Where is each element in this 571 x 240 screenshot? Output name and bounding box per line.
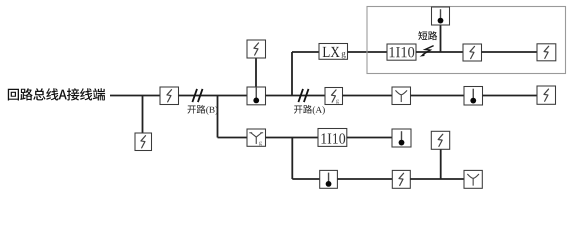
wire junction drop to row3 at node N1 xyxy=(217,96,219,138)
wire S6 to S7 xyxy=(482,51,538,53)
indicator lamp L5 (row4) xyxy=(320,170,338,188)
wire lamp stem L1 to fault box S3 above xyxy=(255,58,257,88)
code box 1I10 (row1) xyxy=(387,44,416,60)
short-circuit fault arrow xyxy=(423,46,434,55)
indicator lamp L4 (row3 end) xyxy=(392,129,411,147)
wire L2 to fault box S5 xyxy=(483,95,538,97)
fault indicator box S7 (lightning, row1 end) xyxy=(537,44,556,61)
indicator lamp L1 (on bus) xyxy=(247,87,266,105)
fault indicator box S3 (lightning, above lamp L1) xyxy=(247,40,266,58)
fault indicator box S6 (lightning, row1) xyxy=(463,44,482,61)
wire node N2 to relay LXg xyxy=(292,51,319,53)
antenna symbol box Y3 (row4 end) xyxy=(464,170,482,188)
wire S8 through node N4 to antenna Y3 xyxy=(410,178,464,180)
label 短路 xyxy=(418,31,437,40)
switch (open point A) double-slash xyxy=(298,89,303,102)
switch (open point B) double-slash xyxy=(192,89,197,102)
wire riser to row1 LX branch at node N2 xyxy=(291,52,293,96)
wire 1I10 row3 to lamp L4 xyxy=(347,137,392,139)
code box 1I10 (row3) xyxy=(318,129,347,147)
wire 1I10 through fault point to S6 xyxy=(416,51,463,53)
fault indicator box S2 (lightning, stub branch) xyxy=(135,133,152,151)
indicator lamp L2 (on bus) xyxy=(464,87,483,106)
wire drop from row3 to row4 at node N3 xyxy=(291,138,293,180)
wire main bus S1 to lamp L1 xyxy=(179,95,248,97)
fault indicator box S1 (lightning, on bus) xyxy=(160,87,179,105)
wire riser fault node to lamp L3 xyxy=(440,25,442,52)
label 开路(B) xyxy=(188,105,218,115)
wire bus A main horizontal segment xyxy=(110,95,160,97)
label 开路(A) xyxy=(294,105,325,115)
enclosure rectangle (short-circuit zone) xyxy=(367,7,566,74)
wire L5 to fault box S8 xyxy=(337,178,392,180)
wire S4 to antenna Y1 xyxy=(343,95,393,97)
node: bus A terminal label 回路总线A接线端 xyxy=(8,88,105,100)
wire main bus L1 to open point A xyxy=(266,95,326,97)
antenna symbol box Y2 (subscript g) xyxy=(247,129,266,146)
wire Y1 to lamp L2 xyxy=(411,95,465,97)
wire branch down to fault indicator S2 xyxy=(142,96,144,134)
wire riser node N4 to fault box S9 xyxy=(440,149,442,179)
fault indicator box S8 (lightning, row4) xyxy=(392,170,410,188)
wire Y2 to code box 1I10 (row3) xyxy=(266,137,319,139)
relay box LXg xyxy=(319,44,348,60)
fault indicator box S5 (lightning, bus end) xyxy=(537,86,556,104)
fault indicator box S9 (lightning, above row4) xyxy=(431,131,449,149)
antenna symbol box Y1 (on bus) xyxy=(392,87,411,105)
wire row4 from node N3 to lamp L5 xyxy=(292,178,319,180)
fault indicator box S4 (lightning with subscript g) xyxy=(325,88,343,105)
indicator lamp L3 (top, in enclosure) xyxy=(432,7,450,25)
wire row3 from node N1 to antenna Y2g xyxy=(218,137,248,139)
wire LXg to code box 1I10 (row1) xyxy=(348,51,388,53)
